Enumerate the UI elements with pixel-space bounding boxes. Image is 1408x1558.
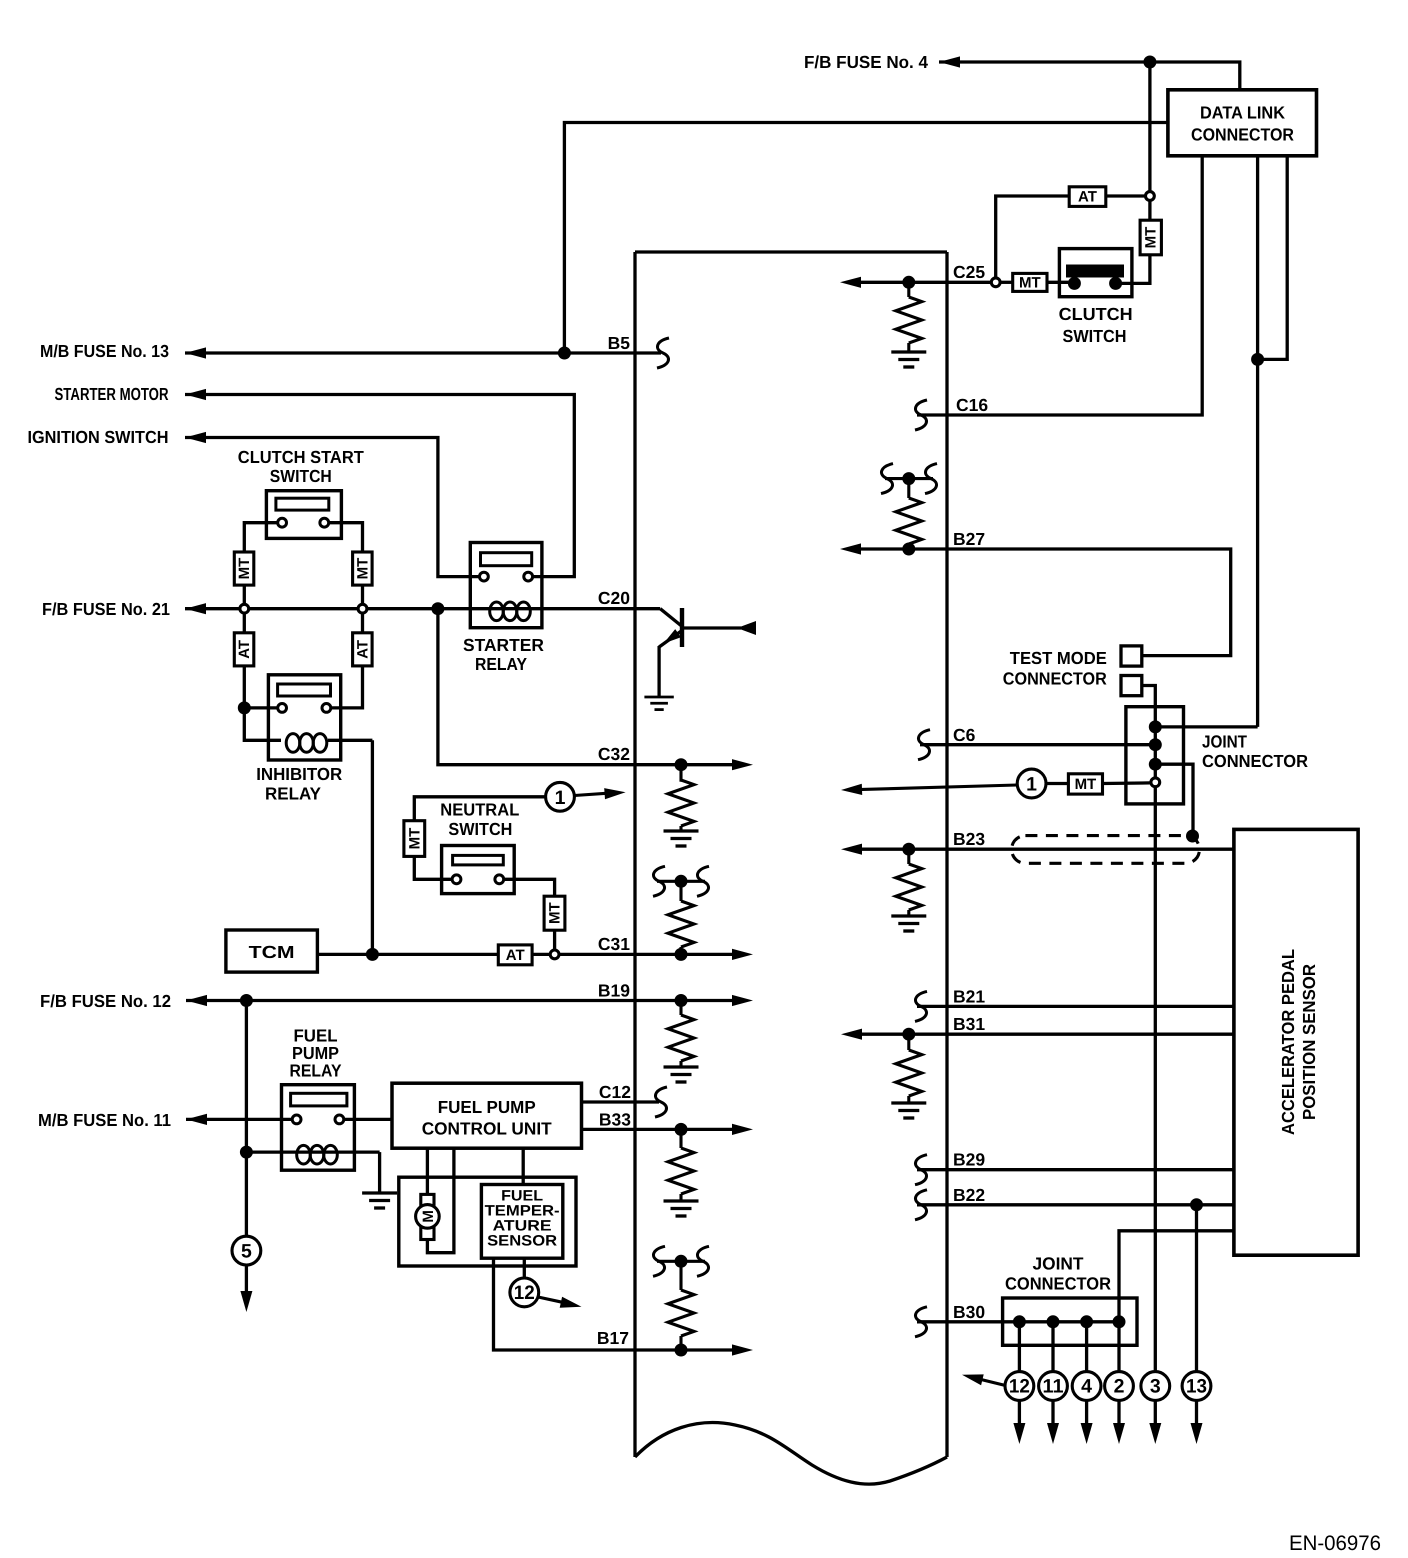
svg-text:B19: B19 [598, 981, 630, 1001]
svg-text:C16: C16 [956, 395, 988, 415]
svg-text:CLUTCH: CLUTCH [1059, 304, 1133, 324]
label JOINT CONNECTOR (lower) [1005, 1254, 1111, 1294]
junction dot J2 pin3 [1080, 1315, 1093, 1328]
wire B19 [186, 999, 742, 1002]
label NEUTRAL SWITCH [440, 800, 519, 840]
svg-text:AT: AT [506, 947, 525, 964]
wire B31 [855, 1033, 1234, 1036]
svg-text:AT: AT [236, 640, 253, 659]
wire relay to FPCU [344, 1118, 392, 1121]
junction dot B23 [902, 843, 915, 856]
fuel pump control unit box [392, 1083, 582, 1148]
contact pin starter relay left [480, 572, 489, 581]
svg-text:2: 2 [1114, 1376, 1125, 1398]
ECM strip top edge [635, 250, 947, 253]
junction dot B33 internal [675, 1123, 688, 1136]
svg-text:C6: C6 [953, 725, 976, 745]
contact pin clutch start switch right [320, 518, 329, 527]
arrow F/B FUSE No.12 [186, 995, 207, 1006]
arrow C31 internal [732, 949, 753, 960]
node circle F21 left [240, 604, 249, 613]
arrow below circled 5 [240, 1265, 252, 1312]
svg-text:C12: C12 [599, 1082, 631, 1102]
resistor C25 pull-down [896, 282, 922, 351]
fuel pump assembly box [399, 1177, 576, 1266]
shielded cable (dashed) around B23 [1012, 836, 1200, 864]
resistor B27 (wavy-dot-wavy) [881, 464, 937, 549]
wire AT right to inhibitor contact [331, 666, 362, 708]
svg-text:RELAY: RELAY [290, 1061, 342, 1081]
svg-text:C31: C31 [598, 934, 630, 954]
circled 11 [1039, 1372, 1068, 1401]
starter relay K1 box [470, 543, 542, 628]
wire clutch start switch right leg [329, 523, 362, 552]
ground B33 [664, 1201, 699, 1216]
arrow B17 internal [732, 1344, 753, 1355]
junction dot JC pin3 [1149, 758, 1162, 771]
svg-text:CONNECTOR: CONNECTOR [1003, 669, 1107, 689]
junction dot shield drain [1186, 830, 1199, 843]
node circle JC pin4 [1151, 778, 1160, 787]
wire C16 [917, 156, 1202, 415]
fuel temperature sensor box [481, 1185, 562, 1259]
circled 12 (fuel temp sensor) [510, 1278, 539, 1307]
TCM box [226, 930, 318, 972]
wire node to AT left [243, 614, 246, 633]
svg-text:JOINT: JOINT [1202, 732, 1247, 752]
wire ignition switch to relay contact [185, 438, 479, 577]
arrow C25 internal [840, 277, 861, 288]
svg-text:JOINT: JOINT [1033, 1254, 1084, 1274]
arrow circled1 neutral [574, 788, 625, 799]
svg-text:CONNECTOR: CONNECTOR [1005, 1274, 1111, 1294]
resistor B33 pull-down [668, 1129, 694, 1200]
svg-text:B17: B17 [597, 1328, 629, 1348]
contact pin inhibitor right [322, 704, 331, 713]
svg-text:12: 12 [514, 1282, 535, 1304]
svg-text:MT: MT [1143, 227, 1160, 249]
wire break wavy C12 [655, 1087, 667, 1117]
wire node to AT right [361, 614, 364, 633]
svg-text:B22: B22 [953, 1185, 985, 1205]
connector AT (right chain lower) [353, 633, 373, 666]
svg-text:13: 13 [1186, 1376, 1207, 1398]
junction dot B31 [902, 1028, 915, 1041]
junction dot J2 pin2 [1047, 1315, 1060, 1328]
svg-text:CONNECTOR: CONNECTOR [1202, 751, 1308, 771]
svg-text:INHIBITOR: INHIBITOR [256, 764, 342, 784]
svg-text:1: 1 [555, 787, 566, 809]
junction dot B17 internal [675, 1344, 688, 1357]
arrow below circle 3 [1149, 1400, 1161, 1444]
arrow below circle 11 [1047, 1400, 1059, 1444]
wire APPS to joint connector pin [1119, 1231, 1234, 1322]
arrow B31 internal [841, 1029, 862, 1040]
label CLUTCH START SWITCH [238, 447, 364, 486]
arrow circled12 [538, 1297, 582, 1308]
contact pin neutral switch right [495, 875, 504, 884]
wire break wavy B30 [915, 1307, 927, 1337]
label FUEL PUMP RELAY [290, 1026, 342, 1081]
wire F/B FUSE No.4 [939, 62, 1240, 90]
arrow B27 internal [840, 543, 861, 554]
resistor B31 pull-down [896, 1034, 922, 1102]
svg-text:11: 11 [1043, 1376, 1064, 1398]
junction dot C25 [902, 276, 915, 289]
clutch switch contact dot right [1109, 277, 1122, 290]
circled 4 [1072, 1372, 1101, 1401]
contact pin fuel pump relay right [335, 1115, 344, 1124]
wire B29 [917, 1168, 1234, 1171]
svg-text:B33: B33 [599, 1109, 631, 1129]
junction dot J2 pin4 [1113, 1315, 1126, 1328]
svg-text:B5: B5 [608, 333, 631, 353]
arrow IGNITION SWITCH [185, 432, 206, 443]
svg-text:MT: MT [236, 558, 253, 580]
wire MT to neutral switch left contact [414, 856, 451, 879]
fuel pump relay K3 box [282, 1085, 355, 1171]
svg-text:AT: AT [354, 640, 371, 659]
wire break wavy B21 [915, 991, 927, 1021]
ground C25 [891, 352, 926, 367]
connector MT (neutral switch right) [544, 896, 565, 930]
wire C31 [560, 953, 742, 956]
transistor Q1 [659, 608, 756, 697]
node circle F21 right [358, 604, 367, 613]
wire coil to ground [378, 1152, 381, 1192]
svg-text:F/B FUSE No. 12: F/B FUSE No. 12 [40, 991, 171, 1011]
arrow F/B FUSE No.4 [939, 56, 960, 67]
svg-text:3: 3 [1150, 1376, 1161, 1398]
circled 1 (joint connector) [1017, 769, 1046, 798]
fuel pump motor M [416, 1194, 440, 1239]
junction dot inhibitor left [238, 701, 251, 714]
svg-text:B29: B29 [953, 1150, 985, 1170]
svg-text:SENSOR: SENSOR [487, 1232, 557, 1249]
wire B5 top horizontal to DLC [564, 123, 1168, 354]
junction dot B22 [1190, 1198, 1203, 1211]
wire J2 pin2 down [1051, 1322, 1054, 1371]
test mode connector square pin 1 [1121, 646, 1142, 666]
ground C32 [664, 831, 699, 846]
label TEST MODE CONNECTOR [1003, 648, 1107, 689]
wire break wavy B22 [915, 1190, 927, 1220]
svg-text:12: 12 [1009, 1376, 1030, 1398]
junction dot JC pin1 [1149, 720, 1162, 733]
arrow below circle 13 [1191, 1400, 1203, 1444]
node circle C31 [550, 950, 559, 959]
circled 5 [232, 1236, 261, 1265]
arrow M/B FUSE No.13 [185, 347, 206, 358]
svg-text:MT: MT [406, 828, 423, 850]
junction dot C20/C32 branch [431, 602, 444, 615]
wire neutral switch right to MT [504, 879, 554, 896]
contact pin fuel pump relay left [292, 1115, 301, 1124]
wire J2 pin3 down [1085, 1322, 1088, 1371]
wire MT to node left [243, 585, 246, 604]
arrow below circle 2 [1113, 1400, 1125, 1444]
connector MT (clutch switch row) [1001, 273, 1069, 291]
wire C6 [920, 743, 1155, 746]
svg-text:TEST MODE: TEST MODE [1010, 648, 1107, 668]
contact pin neutral switch left [452, 875, 461, 884]
svg-text:C32: C32 [598, 744, 630, 764]
node circle C25 [991, 278, 1000, 287]
svg-text:1: 1 [1026, 774, 1037, 796]
wire F/B FUSE No.21 / C20 row [185, 607, 470, 610]
wire FPCU lead2 to motor bottom [427, 1148, 454, 1253]
svg-text:RELAY: RELAY [265, 784, 321, 804]
resistor C31 (wavy-dot-wavy above) [653, 866, 709, 954]
circled 1 (neutral switch) [546, 782, 575, 811]
svg-text:CONTROL UNIT: CONTROL UNIT [422, 1119, 552, 1139]
wire DLC pin3 elbow [1258, 156, 1288, 360]
wire break wavy B29 [915, 1155, 927, 1185]
wire fuse12 branch down to circled 5 [245, 1001, 248, 1237]
junction dot J2 pin1 [1013, 1315, 1026, 1328]
label DATA LINK CONNECTOR [1191, 103, 1294, 145]
data link connector U-DLC box [1168, 90, 1317, 156]
svg-text:MT: MT [1075, 776, 1097, 793]
circled 13 [1182, 1372, 1211, 1401]
arrow circled1 joint [841, 784, 1017, 795]
svg-text:NEUTRAL: NEUTRAL [440, 800, 519, 820]
wire resistor to ground C32 [679, 826, 682, 830]
wire FTS left lead to B17 [494, 1258, 743, 1350]
junction dot DLC pins [1251, 353, 1264, 366]
svg-text:POSITION SENSOR: POSITION SENSOR [1299, 964, 1319, 1120]
wire DLC pin2 down to joint connector [1256, 156, 1259, 727]
svg-text:MT: MT [546, 902, 563, 924]
svg-text:M: M [420, 1210, 437, 1223]
svg-text:TCM: TCM [249, 942, 295, 962]
svg-text:5: 5 [241, 1241, 252, 1263]
svg-text:C20: C20 [598, 588, 630, 608]
arrow below circle 12 [1013, 1400, 1025, 1444]
ground B31 [891, 1103, 926, 1118]
junction dot B19 branch [240, 994, 253, 1007]
contact pin starter relay right [524, 572, 533, 581]
connector MT (right chain upper) [353, 552, 373, 585]
svg-text:STARTER: STARTER [463, 635, 544, 655]
test mode connector square pin 2 [1121, 676, 1142, 696]
starter relay coil / wire C20 out [470, 602, 660, 621]
resistor C32 pull-down [679, 765, 682, 782]
junction dot B19 internal [675, 994, 688, 1007]
svg-text:ACCELERATOR PEDAL: ACCELERATOR PEDAL [1278, 949, 1298, 1135]
ground B19 [664, 1067, 699, 1082]
junction dot F/B FUSE No.4 / clutch circuit [1143, 56, 1156, 69]
svg-text:DATA LINK: DATA LINK [1200, 103, 1285, 123]
wire AT left to inhibitor contact [244, 666, 277, 708]
svg-text:FUEL PUMP: FUEL PUMP [438, 1097, 536, 1117]
neutral switch SW3 box [442, 846, 515, 894]
wire J2 pin4 down [1117, 1322, 1120, 1371]
svg-text:EN-06976: EN-06976 [1289, 1532, 1381, 1555]
wire B21 [917, 1005, 1234, 1008]
wire MT to C31 node [553, 930, 556, 949]
junction dot C31 internal [675, 948, 688, 961]
svg-text:F/B FUSE No. 21: F/B FUSE No. 21 [42, 599, 170, 619]
wire B22 [917, 1203, 1234, 1206]
contact pin inhibitor left [278, 704, 287, 713]
wire B30 [917, 1320, 1119, 1323]
junction dot B27 [902, 543, 915, 556]
resistor B23 pull-down [896, 849, 922, 915]
wire inhibitor coil to TCM line [371, 740, 374, 954]
svg-text:SWITCH: SWITCH [448, 819, 512, 839]
svg-text:B27: B27 [953, 529, 985, 549]
svg-text:C25: C25 [953, 262, 985, 282]
wire TCM to AT [317, 953, 498, 956]
wire C12 [582, 1100, 660, 1103]
svg-text:B30: B30 [953, 1302, 985, 1322]
circled 12 [1005, 1372, 1034, 1401]
joint connector J2 box [1003, 1298, 1137, 1345]
junction dot fuel pump relay coil [240, 1146, 253, 1159]
wire test mode pin2 to joint connector [1142, 686, 1156, 1372]
wire M/B FUSE No.11 to relay [186, 1118, 292, 1121]
svg-text:F/B FUSE No. 4: F/B FUSE No. 4 [804, 52, 928, 72]
svg-text:STARTER MOTOR: STARTER MOTOR [55, 384, 169, 404]
label CLUTCH SWITCH [1059, 304, 1133, 346]
connector MT (neutral switch left) [404, 821, 425, 857]
wire clutch start switch left leg [244, 523, 277, 552]
wire joint connector pin1 to DLC [1155, 725, 1257, 728]
wire B27 [853, 549, 1231, 656]
svg-text:M/B FUSE No. 13: M/B FUSE No. 13 [40, 341, 169, 361]
svg-text:CLUTCH START: CLUTCH START [238, 447, 364, 467]
arrow STARTER MOTOR [185, 389, 206, 400]
wire FTS right lead to circled 12 [523, 1258, 526, 1278]
wire FPCU to fuel temp sensor [522, 1148, 525, 1184]
wire AT to C25 node [996, 196, 1069, 277]
resistor B19 pull-down [668, 1001, 694, 1067]
joint connector J1 box [1126, 707, 1184, 804]
label JOINT CONNECTOR (upper) [1202, 732, 1308, 772]
wire break wavy C16 [915, 400, 927, 430]
svg-text:CONNECTOR: CONNECTOR [1191, 125, 1294, 145]
wire B22 down to circle 13 [1195, 1205, 1198, 1371]
wire inhibitor coil feed [244, 708, 281, 740]
ground B23 [891, 916, 926, 931]
svg-text:4: 4 [1081, 1376, 1092, 1398]
contact pin clutch start switch left [278, 518, 287, 527]
arrow B23 internal [841, 844, 862, 855]
svg-text:MT: MT [1019, 274, 1041, 291]
svg-text:RELAY: RELAY [475, 654, 527, 674]
inhibitor relay coil [286, 734, 372, 753]
ground (transistor emitter) [644, 697, 673, 710]
junction dot JC pin2 [1149, 738, 1162, 751]
connector AT (left chain lower) [234, 633, 254, 666]
svg-text:M/B FUSE No. 11: M/B FUSE No. 11 [38, 1110, 171, 1130]
wire FPCU to motor [426, 1148, 429, 1194]
svg-text:AT: AT [1078, 189, 1097, 206]
arrow M/B FUSE No.11 [186, 1114, 207, 1125]
wire AT to node C31 [532, 953, 550, 956]
wire starter motor to relay contact [185, 395, 574, 577]
label INHIBITOR RELAY [256, 764, 342, 804]
circled 2 [1105, 1372, 1134, 1401]
wire AT node up to F/B FUSE No.4 dot [1148, 62, 1151, 191]
connector MT (left of clutch start switch) [234, 552, 254, 585]
connector AT (TCM row) [498, 945, 532, 965]
arrow below circle 4 [1081, 1400, 1093, 1444]
svg-text:B23: B23 [953, 829, 985, 849]
wire J2 pin1 down [1018, 1322, 1021, 1371]
circled 3 [1141, 1372, 1170, 1401]
connector MT (vertical, AT bypass) [1140, 220, 1161, 255]
wire C25 [853, 281, 991, 284]
wire C32 [438, 609, 742, 765]
arrow C32 internal [732, 759, 753, 770]
wire B23 [855, 848, 1234, 851]
clutch switch SW2 box [1059, 249, 1132, 297]
ECM strip left edge [633, 252, 636, 1457]
wire joint connector pin3 to shield [1155, 764, 1193, 834]
ECM strip bottom wavy break [635, 1423, 947, 1485]
clutch switch contact dot left [1068, 277, 1081, 290]
wire B5 [185, 351, 661, 354]
svg-text:SWITCH: SWITCH [1063, 326, 1127, 346]
arrow F/B FUSE No.21 [185, 603, 206, 614]
junction dot TCM / inhibitor coil [366, 948, 379, 961]
arrow to ECM (near circle 12) [962, 1374, 1007, 1385]
ECM strip right edge [945, 252, 948, 1457]
arrow B19 internal [732, 995, 753, 1006]
wire MT vertical to AT node [1148, 201, 1151, 220]
resistor B17 (wavy-dot-wavy above) [653, 1246, 709, 1350]
junction dot C32 internal [675, 758, 688, 771]
clutch start switch SW1 [266, 491, 341, 539]
svg-text:B21: B21 [953, 986, 985, 1006]
ground fuel pump relay [362, 1193, 397, 1208]
connector MT (joint connector) [1046, 774, 1150, 794]
wire clutch switch right to MT vertical [1116, 255, 1150, 284]
wire B33 [582, 1128, 743, 1131]
arrow B33 internal [732, 1124, 753, 1135]
node circle AT/MT junction [1146, 192, 1155, 201]
label STARTER RELAY [463, 635, 544, 674]
inhibitor relay K2 box [268, 675, 340, 760]
wire circled1 to MT (neutral) [414, 797, 545, 821]
svg-text:IGNITION SWITCH: IGNITION SWITCH [28, 427, 169, 447]
wire break wavy C6 [918, 730, 930, 760]
wire MT to node right [361, 585, 364, 604]
svg-text:MT: MT [354, 558, 371, 580]
junction dot B5 [558, 347, 571, 360]
connector AT (bypass) [1069, 187, 1145, 207]
clutch switch bar [1066, 265, 1124, 278]
accelerator pedal position sensor box [1234, 829, 1358, 1255]
fuel pump relay coil [246, 1145, 379, 1164]
svg-text:B31: B31 [953, 1014, 985, 1034]
wire break wavy B5 [657, 338, 669, 368]
svg-text:SWITCH: SWITCH [270, 466, 332, 486]
label ACCELERATOR PEDAL POSITION SENSOR [1278, 949, 1319, 1135]
